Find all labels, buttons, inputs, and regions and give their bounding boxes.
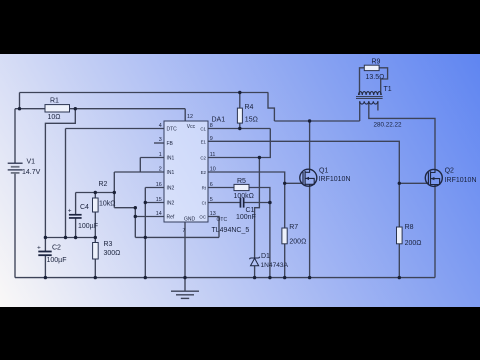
svg-text:15Ω: 15Ω [245,116,258,123]
svg-text:DA1: DA1 [212,116,226,123]
wire divider link row [114,207,135,209]
svg-text:TL494NC_5: TL494NC_5 [212,227,250,234]
rail junction pin16 column [144,276,147,279]
svg-text:16: 16 [156,182,162,188]
wire R9 left lead [360,68,365,95]
resistor R9 [364,65,379,70]
wire link top rail to R1 row [19,93,21,109]
junction pin2 column / R2 row [113,191,116,194]
wire pin8 row [208,128,270,130]
wire V1 bottom column [14,174,16,278]
junction Q1 drain on T1 row [308,119,311,122]
junction R4 / pin8 row [238,127,241,130]
svg-text:+: + [68,208,72,215]
svg-text:9: 9 [210,136,213,142]
resistor R3 [93,243,99,260]
svg-text:14.7V: 14.7V [22,169,41,176]
wire pin16 row [145,187,164,189]
svg-text:100kΩ: 100kΩ [234,193,254,200]
wire pin15 row [145,202,164,204]
wire pin1 row [140,157,164,159]
svg-text:10kΩ: 10kΩ [99,200,116,207]
wire pin8 to pin11 link [259,129,270,158]
svg-text:R8: R8 [405,224,414,231]
svg-text:12: 12 [187,114,193,120]
wire pin2 column down [113,172,115,208]
wire Q1 drain column [309,121,311,169]
transformer T1 top winding [359,92,382,95]
wire R4 column [239,93,241,129]
junction Q2 gate / R8 [398,182,401,185]
svg-text:R9: R9 [372,59,381,66]
svg-text:R5: R5 [237,178,246,185]
junction top rail / R1 link [18,107,21,110]
resistor R1 [45,105,70,112]
zener diode D1 [249,257,259,266]
capacitor C4 [69,214,82,219]
junction pin11 node [258,156,261,159]
rail junction R7 [283,276,286,279]
wire Q1 source column [309,187,311,278]
svg-text:10Ω: 10Ω [48,114,61,121]
svg-text:Rt: Rt [202,185,207,190]
right pin numbers [210,123,216,217]
svg-text:Vcc: Vcc [187,124,196,130]
svg-text:8: 8 [210,123,213,129]
wire pin14 Ref row [135,216,164,218]
schematic background [0,54,480,307]
svg-text:R4: R4 [245,104,254,111]
svg-text:IN1: IN1 [167,156,175,162]
wire C4 top column [75,193,77,215]
left pin numbers [156,123,162,217]
svg-text:R3: R3 [104,241,113,248]
svg-text:300Ω: 300Ω [104,250,121,257]
MOSFET Q1 [300,169,317,187]
wire pin5 row to C1 [208,202,240,204]
svg-text:C1: C1 [246,207,255,214]
wire lower loop row under chip [135,236,219,238]
svg-text:T1: T1 [384,86,392,93]
wire T1 center tap to Q2 drain [369,101,435,169]
svg-text:V1: V1 [27,159,36,166]
svg-text:IRF1010N: IRF1010N [445,177,477,184]
wire pin1 to pin2 link [139,158,141,173]
junction pin16 column on loop row [144,236,147,239]
IC DA1 TL494 body [164,121,208,222]
transformer T1 bottom winding [360,101,378,104]
wire pin13 link [208,217,219,238]
wire D1 cathode to rail [254,266,256,278]
svg-text:2: 2 [159,167,162,173]
svg-text:C4: C4 [80,204,89,211]
junction C2 column on node row [44,236,47,239]
svg-text:C2: C2 [52,245,61,252]
svg-text:15: 15 [156,197,162,203]
rail junction C2 [44,276,47,279]
wire R2 top row [76,192,115,194]
svg-text:280.22.22: 280.22.22 [374,122,403,129]
wire pin3 FB stub [154,142,164,144]
wire pin6 row to R5 [208,187,234,189]
svg-text:DTC: DTC [167,127,178,133]
wire pin9 row to Q2 gate corner [208,141,399,183]
wire chip GND pin7 column [184,222,186,278]
MOSFET Q2 [425,169,442,187]
wire stepped segment to transformer row [268,93,274,122]
wire pin10 row to Q1 gate corner [208,172,285,183]
ground symbol stem [184,278,186,291]
svg-text:C2: C2 [200,155,206,160]
svg-text:10: 10 [210,167,216,173]
wire V1 top column [14,109,16,164]
wire R5 right lead down to C1 node [249,188,270,203]
svg-text:100µF: 100µF [47,257,67,264]
svg-text:R7: R7 [289,224,298,231]
wire C2 bottom to rail [44,256,46,278]
wire link column to Ref row [134,208,136,238]
wire Q1 gate [285,182,303,184]
wire T1 primary right stub [377,101,379,110]
bottom letterbox bar [0,307,480,360]
wire pin11 row [208,157,259,159]
junction top rail / R4 [238,91,241,94]
rail junction Q1 source [308,276,311,279]
svg-text:R2: R2 [99,181,108,188]
wire pin4 DTC row [66,128,165,130]
svg-text:E1: E1 [201,139,207,144]
rail junction R3 [94,276,97,279]
wire Q2 gate [399,182,428,184]
transformer T1 core [356,97,383,99]
wire R7 column [284,183,286,277]
wire pin11 node down to D1 [255,158,260,259]
rail junction GND column [183,276,186,279]
top letterbox bar [0,0,480,54]
svg-text:100nF: 100nF [236,214,256,221]
rail junction R8 [398,276,401,279]
resistor R5 [234,184,249,190]
svg-text:Q2: Q2 [445,168,454,175]
svg-text:7: 7 [183,228,186,234]
wire C4 bottom column [75,218,77,237]
wire Q2 source column [434,187,436,278]
wire T1 primary left terminal [359,101,361,121]
resistor R8 [397,227,403,244]
svg-text:1N4743A: 1N4743A [261,262,289,269]
svg-text:14: 14 [156,211,162,217]
svg-text:D1: D1 [261,253,270,260]
junction C4 bottom on node row [74,236,77,239]
svg-text:IRF1010N: IRF1010N [319,176,351,183]
svg-text:11: 11 [210,152,216,158]
wire R9 right lead [379,68,388,95]
wire Vcc pin12 column [184,109,186,121]
svg-text:IN2: IN2 [167,201,175,207]
wire pin2 row [114,171,164,173]
junction pin15 / pin16 column [144,201,147,204]
wire C1 node to rail [269,203,271,278]
wire jog from R1 node down-left to C2 column [45,109,75,251]
svg-text:100µF: 100µF [78,223,98,230]
wire pin16 column to rail [144,188,146,278]
svg-text:IN2: IN2 [167,186,175,192]
svg-text:GND: GND [184,217,196,223]
ground symbol bars [171,290,199,292]
svg-text:IN1: IN1 [167,170,175,176]
svg-text:Q1: Q1 [319,168,328,175]
svg-text:OC: OC [199,214,206,219]
svg-text:FB: FB [167,141,174,147]
svg-text:1: 1 [159,152,162,158]
junction pin4 column on node row [64,236,67,239]
wire top V+ rail [20,92,269,94]
svg-text:Ref: Ref [167,215,175,221]
battery V1 [8,163,23,173]
junction R1 row / C2 branch [74,107,77,110]
capacitor C1 [240,198,245,208]
rail junction C1 column [268,276,271,279]
svg-text:C1: C1 [200,126,206,131]
junction Ref row [134,215,137,218]
capacitor C2 [38,251,51,257]
wire C1 right lead [244,202,270,204]
junction R3 top node [94,236,97,239]
resistor R7 [282,228,287,244]
svg-text:5: 5 [210,197,213,203]
wire R8 column [398,183,400,277]
wire bottom ground rail [15,277,435,279]
resistor R2 [93,198,99,212]
rail junction D1 [253,276,256,279]
wire node row C2 to R3 top [45,237,95,239]
svg-text:+: + [37,244,41,251]
wire pin4 column down [65,129,67,238]
svg-text:13: 13 [210,211,216,217]
junction R5-C1 node [268,201,272,205]
junction divider link left [134,206,137,209]
svg-text:Ct: Ct [202,200,207,205]
svg-text:200Ω: 200Ω [405,240,422,247]
svg-text:200Ω: 200Ω [289,238,306,245]
svg-text:6: 6 [210,182,213,188]
svg-text:3: 3 [159,137,162,143]
junction R2 top [94,191,97,194]
wire R1 row (Vcc feed) [15,108,185,110]
right interior pin names [199,126,206,219]
wire R2-R3 column [94,193,96,278]
svg-text:4: 4 [159,123,162,129]
junction Q1 gate / R7 [283,182,286,185]
svg-text:OTC: OTC [217,217,228,223]
svg-text:E2: E2 [201,170,207,175]
svg-text:R1: R1 [50,97,59,104]
wire row to T1 primary left (Q1 drain rail) [274,120,359,122]
resistor R4 [237,108,242,123]
svg-text:13.5Ω: 13.5Ω [366,74,385,81]
